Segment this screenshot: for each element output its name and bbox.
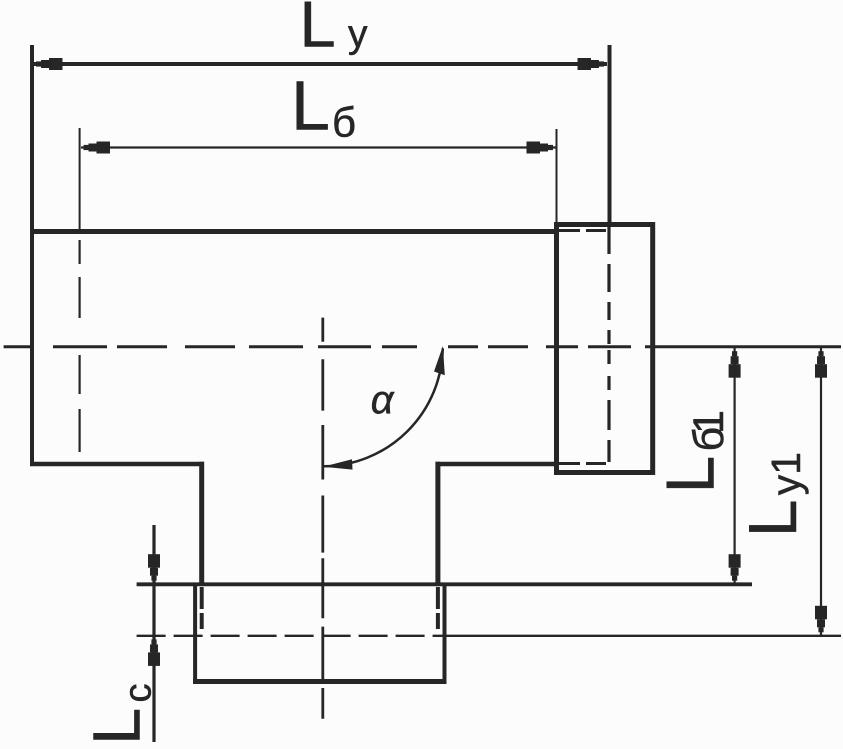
hidden pipe top edge in right socket [559, 229, 606, 232]
arrow left Lb [84, 142, 111, 154]
arrow right Ly [578, 58, 605, 70]
dimension line Lb1 [733, 348, 735, 583]
hidden shoulder line y=636 dashed part [137, 635, 446, 637]
socket face line y=584 (extension for Lb1 and Lc) [137, 582, 752, 586]
svg-text:L: L [735, 499, 811, 537]
label Lc (rotated) [80, 684, 160, 746]
svg-text:у1: у1 [763, 452, 809, 495]
svg-text:α: α [371, 378, 395, 422]
bottom socket right edge [443, 584, 447, 684]
extension line x=80 solid part [79, 128, 81, 232]
branch left edge [199, 462, 204, 586]
shoulder extension line y=636 solid part [446, 635, 841, 637]
extension line pipe end (x=609) [608, 45, 612, 222]
arc arrow top [434, 346, 445, 375]
arrow up Lc [148, 639, 160, 666]
centerline branch vertical dashes [321, 318, 324, 719]
label Lb1 (rotated) [653, 412, 734, 494]
centerline horizontal (axis) dashes [4, 345, 631, 348]
svg-text:б: б [332, 99, 356, 146]
arrow down Ly1 [815, 606, 827, 633]
label Ly1 (rotated) [735, 452, 811, 537]
hidden pipe bottom edge in right socket [559, 462, 606, 465]
right socket outline [557, 225, 653, 473]
pipe bottom edge right [436, 462, 560, 467]
svg-text:L: L [291, 67, 330, 145]
angle arc [324, 348, 443, 466]
hidden branch left edge in socket [200, 587, 204, 629]
arrow down Lc [148, 554, 160, 581]
arrow down Lb1 [729, 554, 741, 581]
arrow up Lb1 [729, 351, 741, 378]
svg-text:L: L [300, 0, 336, 61]
extension line left end (x=32) [30, 45, 34, 466]
arrow left Ly [36, 58, 63, 70]
svg-text:б1: б1 [685, 412, 733, 452]
arrow up Ly1 [815, 351, 827, 378]
centerline horizontal solid extension to dimensions [645, 345, 841, 348]
svg-text:L: L [653, 456, 729, 494]
pipe top edge [30, 229, 559, 234]
arc arrow bottom [323, 459, 353, 469]
hidden branch right edge in socket [436, 587, 440, 629]
bottom socket left edge [193, 584, 197, 684]
dimension line Ly [34, 62, 607, 66]
hidden dashed mark line x=80 inside body [78, 240, 80, 452]
dimension line Lb [81, 146, 556, 148]
svg-text:L: L [80, 708, 155, 745]
extension line socket face (x=556.5) [556, 129, 558, 222]
svg-text:у: у [348, 13, 368, 56]
arrow right Lb [527, 142, 554, 154]
dimension line Lc [152, 525, 155, 742]
pipe bottom edge left [30, 462, 204, 467]
hidden pipe end in right socket [607, 227, 610, 462]
branch right edge [435, 462, 440, 586]
bottom socket bottom edge [193, 679, 447, 684]
dimension line Ly1 [820, 348, 822, 635]
svg-text:c: c [118, 684, 160, 703]
